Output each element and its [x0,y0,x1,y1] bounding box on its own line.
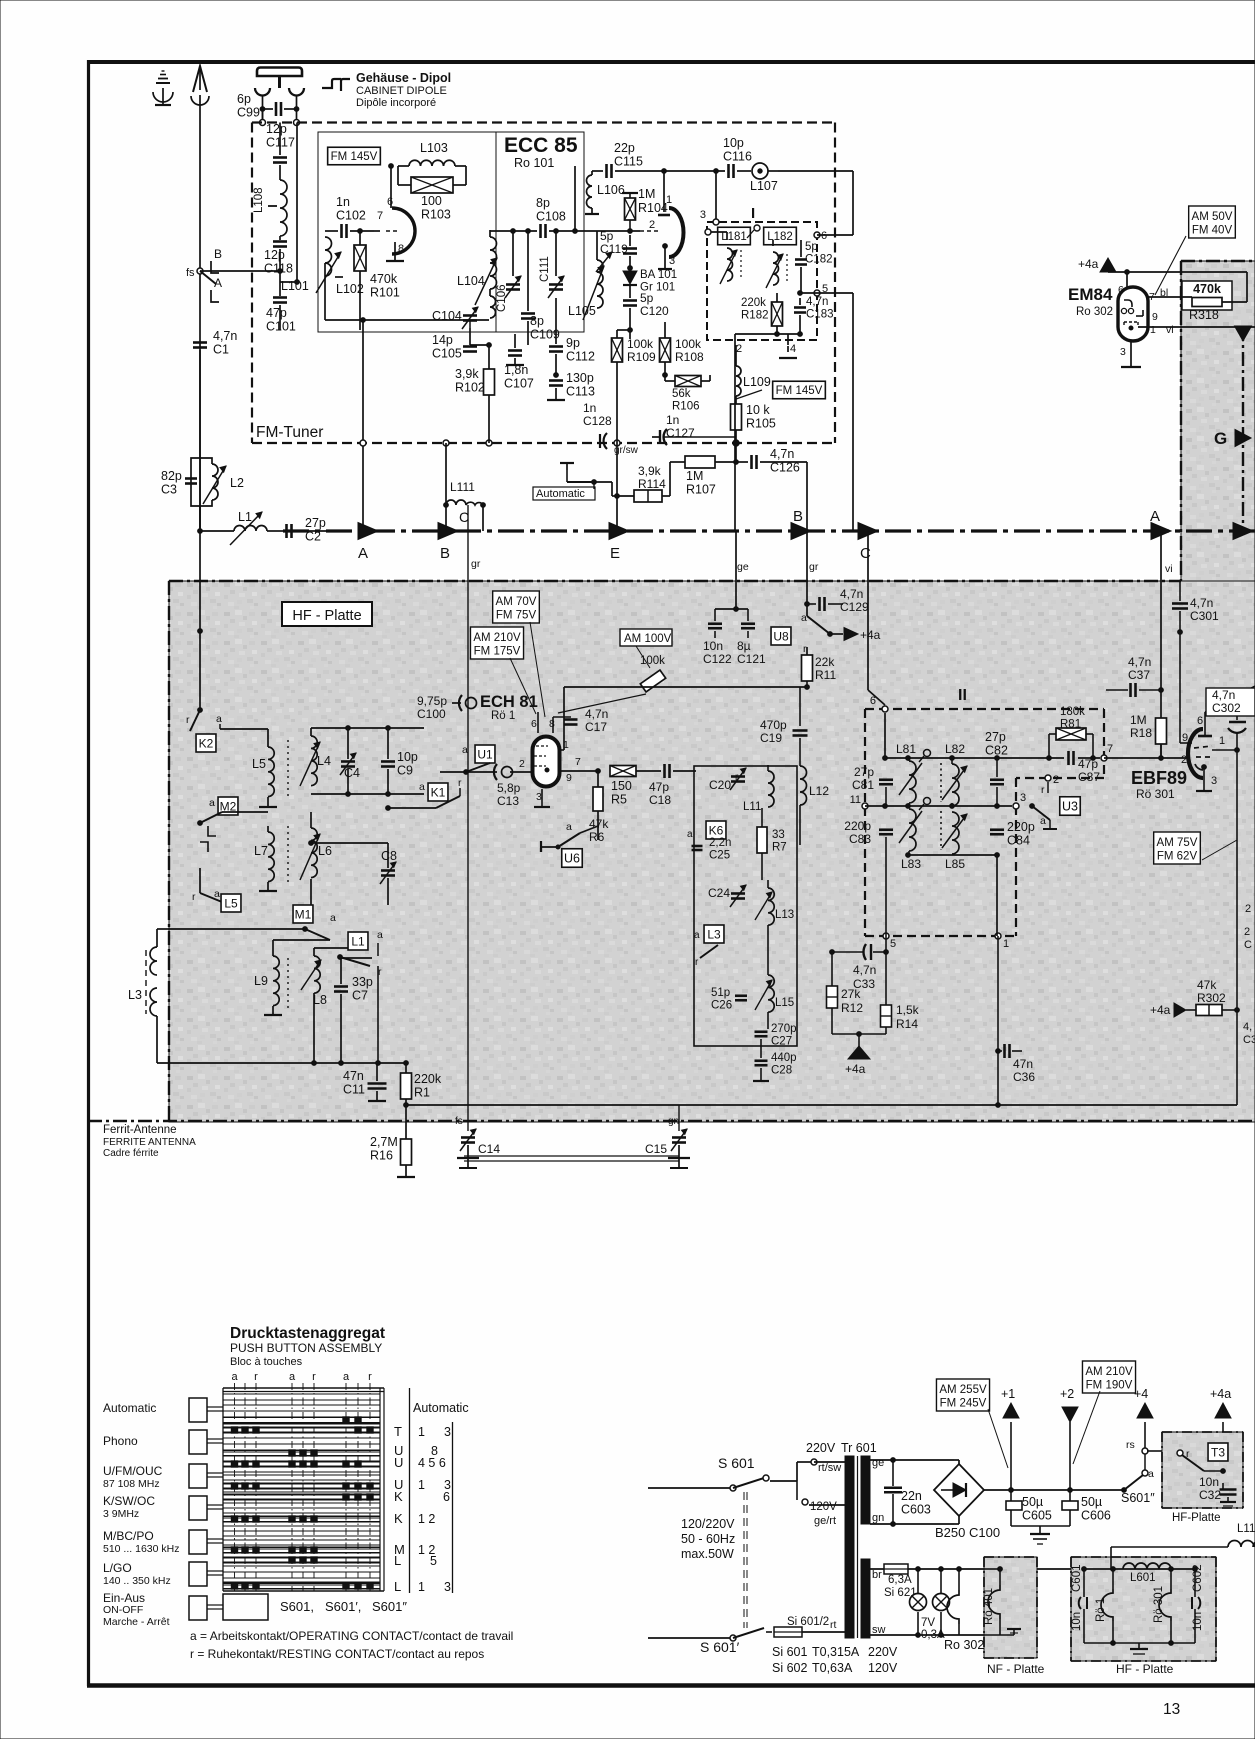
svg-text:R106: R106 [672,401,700,413]
svg-text:a: a [377,929,383,941]
svg-text:L107: L107 [750,179,778,193]
svg-text:22n: 22n [901,1489,922,1503]
AM255 FM245 box [936,1379,989,1411]
+1 arrow [1010,1422,1012,1490]
svg-text:3: 3 [1120,346,1126,358]
svg-text:1 2: 1 2 [418,1512,435,1526]
svg-text:L6: L6 [318,844,332,858]
svg-text:9,75p: 9,75p [417,694,447,708]
svg-text:47n: 47n [343,1069,364,1083]
svg-text:Automatic: Automatic [413,1401,469,1415]
svg-text:C37: C37 [1128,668,1150,682]
svg-text:510 ... 1630 kHz: 510 ... 1630 kHz [103,1543,179,1555]
wires around ECC85 mid [490,230,537,232]
bus arrow right edge [1233,523,1253,540]
capacitor C18 [663,764,666,778]
svg-text:4,7n: 4,7n [1212,688,1235,702]
capacitor C28 [755,1059,768,1062]
svg-text:Cadre férrite: Cadre férrite [103,1148,159,1159]
bus arrow C2 [858,523,878,540]
svg-text:C3: C3 [161,483,177,497]
svg-text:4,7n: 4,7n [853,963,876,977]
svg-text:5: 5 [890,938,896,950]
svg-text:L109: L109 [743,375,771,389]
capacitor C117 [273,156,287,159]
svg-text:C605: C605 [1022,1509,1052,1523]
svg-text:220k: 220k [414,1072,442,1086]
gray box T3 HF-Platte [1162,1432,1243,1508]
wires box I top [726,232,728,240]
resistor R16 [405,1105,407,1139]
svg-text:FM 245V: FM 245V [940,1398,987,1410]
HF-Platte box bottom [1071,1557,1216,1661]
capacitor C27 [755,1030,768,1033]
br rail [870,1568,1084,1570]
right bars [409,1388,411,1593]
sw rail [870,1634,984,1636]
svg-text:L3: L3 [707,927,721,941]
rail C y=855 [908,854,997,856]
svg-text:U3: U3 [1062,800,1078,814]
svg-text:4,7n: 4,7n [213,329,237,343]
gang link lines [464,1155,679,1157]
+1 rail [984,1489,1124,1491]
svg-text:HF - Platte: HF - Platte [292,608,361,624]
svg-text:AM 75V: AM 75V [1157,837,1198,849]
horizontal rail y=1063 [157,1062,406,1064]
svg-text:100k: 100k [675,337,702,351]
FM-Tuner dashed box [252,121,835,123]
svg-text:C105: C105 [432,347,462,361]
svg-text:C101: C101 [266,320,296,334]
svg-text:8: 8 [398,243,404,255]
svg-text:AM 255V: AM 255V [939,1384,987,1396]
svg-text:U: U [394,1455,403,1470]
svg-text:9: 9 [566,772,572,784]
coil L2 [212,464,218,500]
resistor R109 [612,338,623,362]
svg-text:Tr 601: Tr 601 [841,1441,877,1455]
svg-text:8p: 8p [536,196,550,210]
svg-text:fs: fs [455,1116,463,1127]
svg-text:E: E [610,545,620,562]
svg-text:a: a [231,1371,238,1383]
svg-text:6: 6 [387,196,393,208]
capacitor C101 [273,296,287,299]
svg-text:L181: L181 [721,231,747,243]
svg-text:27p: 27p [985,730,1006,744]
svg-text:R107: R107 [686,483,716,497]
svg-text:L83: L83 [901,857,921,871]
node T / Automatic [560,462,574,464]
L181 [718,227,751,245]
+4a arrow [1222,1422,1224,1486]
svg-text:L5: L5 [252,757,266,771]
svg-text:27p: 27p [854,765,874,779]
svg-text:1M: 1M [1130,713,1147,727]
switch U6 [540,841,542,852]
svg-text:1: 1 [1003,938,1009,950]
svg-text:22k: 22k [815,655,835,669]
svg-text:27p: 27p [305,516,326,530]
svg-text:4,7n: 4,7n [1128,655,1151,669]
resistor R5 [610,766,636,777]
svg-text:R103: R103 [421,208,451,222]
svg-text:Dipôle incorporé: Dipôle incorporé [356,97,436,109]
svg-text:87 108 MHz: 87 108 MHz [103,1478,160,1490]
fuse Si621 [884,1564,908,1574]
bus arrow A [358,523,378,540]
svg-text:K: K [394,1489,403,1504]
svg-text:U1: U1 [477,747,493,761]
AM210 FM190 box [1082,1361,1135,1393]
svg-text:4,7n: 4,7n [840,587,863,601]
svg-text:Marche - Arrêt: Marche - Arrêt [103,1616,170,1628]
svg-text:220k: 220k [741,297,766,309]
svg-text:C20: C20 [709,778,731,792]
right strip vertical dashdot [1242,327,1244,531]
capacitor C302 [1206,688,1255,716]
svg-text:Ro 302: Ro 302 [944,1638,984,1652]
svg-text:10n: 10n [1192,1612,1204,1631]
svg-text:L111: L111 [450,480,475,494]
svg-text:4,7n: 4,7n [585,707,608,721]
svg-text:a: a [419,781,425,793]
svg-text:C15: C15 [645,1142,667,1156]
svg-text:FERRITE ANTENNA: FERRITE ANTENNA [103,1137,196,1148]
coil L15 [768,975,774,1012]
coil L108 [280,180,287,236]
svg-text:rs: rs [1126,1439,1135,1451]
svg-text:L81: L81 [896,742,916,756]
svg-text:12p: 12p [264,248,285,262]
svg-text:C: C [1244,939,1252,951]
svg-text:C121: C121 [737,652,766,666]
svg-text:M1: M1 [295,907,312,921]
svg-text:C1: C1 [213,343,229,357]
dotted core between L5 L4 [287,740,289,800]
svg-text:Rö 1: Rö 1 [491,710,515,722]
svg-text:14p: 14p [432,333,453,347]
svg-text:L4: L4 [317,754,331,768]
svg-text:470k: 470k [370,272,398,286]
node 3 [1013,803,1019,809]
Ein-Aus wide box [223,1594,268,1620]
svg-text:1: 1 [418,1580,425,1594]
capacitor C105 [463,345,477,348]
svg-text:2: 2 [1053,774,1059,786]
resistor R7 [757,827,767,853]
svg-text:FM 145V: FM 145V [776,385,823,397]
svg-text:L85: L85 [945,857,965,871]
svg-text:Drucktastenaggregat: Drucktastenaggregat [230,1325,385,1342]
svg-text:PUSH BUTTON ASSEMBLY: PUSH BUTTON ASSEMBLY [230,1341,382,1355]
svg-text:3: 3 [1211,775,1217,787]
capacitor C112 [549,345,563,348]
svg-text:HF-Platte: HF-Platte [1172,1512,1221,1524]
svg-text:C81: C81 [852,778,874,792]
voltage box AM70 FM75 [493,591,540,623]
NF-Platte box [984,1557,1037,1658]
svg-text:C111: C111 [539,256,551,282]
svg-text:a: a [462,744,468,756]
svg-text:5: 5 [430,1554,437,1568]
FM 145V box [328,147,381,165]
coil L102 [325,237,332,276]
svg-text:33p: 33p [352,975,373,989]
svg-text:L105: L105 [568,304,596,318]
svg-text:Automatic: Automatic [103,1401,156,1415]
resistor R106 [675,376,701,387]
svg-text:220V: 220V [806,1441,836,1455]
wire C117 branch [279,123,281,156]
AM75V FM62V box [1154,832,1201,864]
Ro401 heater [999,1569,1001,1585]
wires to transformer primary [814,1461,845,1463]
svg-text:4,: 4, [1243,1021,1252,1033]
svg-text:FM-Tuner: FM-Tuner [256,424,323,441]
resistor R103 [398,165,409,167]
svg-text:a: a [801,612,807,624]
svg-text:U6: U6 [564,852,580,866]
svg-text:AM 100V: AM 100V [624,633,672,645]
svg-text:L11: L11 [743,801,761,813]
svg-text:Gehäuse - Dipol: Gehäuse - Dipol [356,71,451,85]
resistor R12 [831,952,833,986]
L81 slug arrow [899,763,922,795]
wire node7 to R18 [1104,757,1190,759]
capacitor C84 [990,828,1004,831]
switch U3 [1060,797,1081,816]
svg-text:C19: C19 [760,731,782,745]
svg-text:150: 150 [611,779,632,793]
svg-text:7V: 7V [921,1617,935,1629]
svg-text:5p: 5p [600,229,614,243]
svg-text:a: a [566,821,572,833]
svg-text:L106: L106 [597,183,625,197]
page frame top [87,60,1255,64]
svg-text:vi: vi [1166,324,1174,336]
svg-text:R318: R318 [1189,308,1219,322]
svg-text:5,8p: 5,8p [497,781,521,795]
svg-text:C25: C25 [709,850,730,862]
diode BA101 [623,271,637,284]
svg-text:L182: L182 [767,231,793,243]
svg-text:A: A [1150,508,1160,525]
svg-text:50µ: 50µ [1081,1495,1102,1509]
svg-text:+4a: +4a [845,1062,866,1076]
svg-text:K2: K2 [199,736,214,750]
S601 dashed link [743,1492,745,1628]
cabinet dipole icon [322,79,350,91]
svg-text:51p: 51p [711,987,730,999]
svg-text:3: 3 [700,209,706,221]
svg-text:M/BC/PO: M/BC/PO [103,1529,154,1543]
svg-text:C82: C82 [985,744,1008,758]
svg-text:2: 2 [1181,754,1187,766]
svg-text:CABINET DIPOLE: CABINET DIPOLE [356,85,447,97]
svg-text:3: 3 [536,791,542,803]
svg-text:R108: R108 [675,350,704,364]
triode 1 ECC85 [392,208,415,254]
svg-text:2: 2 [649,219,655,231]
dotted core L81 L82 [940,763,942,802]
svg-text:+4a: +4a [1078,257,1099,271]
svg-text:ge/rt: ge/rt [814,1515,836,1527]
svg-text:B: B [793,508,803,525]
svg-text:C36: C36 [1013,1070,1035,1084]
svg-text:a: a [214,888,220,900]
L4 C4 C9 tank [311,727,424,729]
svg-text:C87: C87 [1078,770,1100,784]
svg-text:Bloc à touches: Bloc à touches [230,1356,303,1368]
capacitor C129 [807,603,816,605]
svg-text:470k: 470k [1193,282,1221,296]
capacitor C9 [381,760,395,763]
HF-Platte border top [169,580,1181,582]
svg-text:1M: 1M [686,469,703,483]
svg-text:C99: C99 [237,106,260,120]
svg-text:+4: +4 [1134,1387,1148,1401]
svg-text:R18: R18 [1130,726,1152,740]
svg-text:Si 601: Si 601 [772,1645,807,1659]
svg-text:FM 175V: FM 175V [474,646,521,658]
svg-text:R7: R7 [772,842,787,854]
svg-text:R109: R109 [627,350,656,364]
svg-text:S601″: S601″ [372,1599,407,1614]
capacitor C13 [466,771,497,773]
svg-text:C14: C14 [478,1142,500,1156]
svg-text:C601: C601 [1071,1565,1083,1593]
svg-text:C84: C84 [1007,834,1030,848]
coil L6 [311,828,317,878]
svg-text:r: r [192,891,196,903]
svg-text:L112: L112 [1237,1523,1255,1535]
svg-text:R302: R302 [1197,991,1226,1005]
svg-text:R6: R6 [589,830,605,844]
capacitor C126 [736,461,748,463]
capacitor C2 [285,524,288,538]
white box 470k R318 [1182,281,1232,310]
svg-text:56k: 56k [672,388,691,400]
svg-text:7: 7 [377,210,383,222]
svg-text:FM 40V: FM 40V [1192,225,1233,237]
svg-text:3: 3 [444,1580,451,1594]
svg-text:5p: 5p [805,241,818,253]
HF-Platte border bottom [88,1120,1255,1122]
svg-text:gn: gn [872,1512,884,1524]
svg-text:C17: C17 [585,720,607,734]
resistor R6 [593,787,603,811]
svg-text:AM 50V: AM 50V [1192,211,1233,223]
svg-text:2,2n: 2,2n [709,837,731,849]
svg-text:I: I [751,205,755,222]
svg-text:100: 100 [421,194,442,208]
svg-text:L601: L601 [1130,1572,1156,1584]
svg-text:8µ: 8µ [737,639,751,653]
L107 target symbol [752,163,768,179]
AM50V FM40V box [1189,206,1236,238]
svg-text:G: G [1214,429,1227,448]
svg-text:r: r [458,777,462,789]
capacitor C107 [508,349,522,352]
svg-text:L5: L5 [224,896,238,910]
svg-text:1: 1 [1219,735,1225,747]
inner thin box ECC85 [318,132,584,332]
svg-text:C113: C113 [566,385,595,399]
svg-text:9p: 9p [566,336,580,350]
svg-text:gr: gr [471,558,481,570]
capacitor C36 [997,936,999,1105]
svg-text:2: 2 [1244,926,1250,938]
svg-text:6: 6 [1118,284,1124,296]
bus arrow A2 [1151,523,1171,540]
svg-text:2: 2 [519,758,525,770]
svg-text:3 9MHz: 3 9MHz [103,1508,139,1520]
svg-text:4,7n: 4,7n [806,296,828,308]
dotted core L83 L85 [940,811,942,850]
svg-text:C7: C7 [352,989,368,1003]
svg-text:R12: R12 [841,1001,863,1015]
svg-text:S601,: S601, [280,1599,314,1614]
bus arrow B [438,523,458,540]
svg-text:a: a [330,912,336,924]
+2 arrow [1069,1422,1071,1490]
wire from node2 down to bus [734,345,736,531]
Ro302 heater [957,1567,962,1572]
svg-text:13: 13 [1163,1701,1180,1718]
svg-text:rt/sw: rt/sw [818,1462,841,1474]
svg-text:C104: C104 [432,309,462,323]
+4a feed [832,1033,886,1035]
svg-text:AM 210V: AM 210V [1085,1366,1133,1378]
svg-text:L103: L103 [420,141,448,155]
capacitor C120 [623,299,637,302]
svg-text:R114: R114 [638,477,666,491]
capacitor C111 [549,283,563,286]
bus arrow E [609,523,629,540]
svg-text:+2: +2 [1060,1387,1074,1401]
svg-text:FM 75V: FM 75V [496,610,537,622]
svg-text:FM 62V: FM 62V [1157,851,1198,863]
switch U8 [771,627,791,645]
svg-text:r: r [254,1371,258,1383]
C601 [1083,1569,1085,1597]
svg-text:Rö 301: Rö 301 [1136,787,1175,801]
svg-text:II: II [958,687,967,704]
svg-text:120/220V: 120/220V [681,1517,735,1531]
coil L83 [909,809,916,851]
svg-text:AM 70V: AM 70V [496,596,537,608]
resistor R108 [660,338,671,362]
L182 [764,227,797,245]
svg-text:3,9k: 3,9k [455,367,479,381]
svg-text:Si 602: Si 602 [772,1661,807,1675]
bus arrow B2 [791,523,811,540]
svg-text:+4a: +4a [1150,1003,1171,1017]
svg-text:R1: R1 [414,1086,430,1100]
right gray strip border left [1180,261,1182,581]
svg-text:47p: 47p [266,306,287,320]
switch K6 [706,821,726,839]
svg-text:a: a [216,713,222,725]
svg-text:Si 601/2: Si 601/2 [787,1616,829,1628]
svg-text:6: 6 [531,718,537,730]
push buttons left [189,1398,207,1422]
node circles on FM box top [262,109,264,122]
svg-text:U8: U8 [773,629,789,643]
capacitor C7 [334,985,348,988]
